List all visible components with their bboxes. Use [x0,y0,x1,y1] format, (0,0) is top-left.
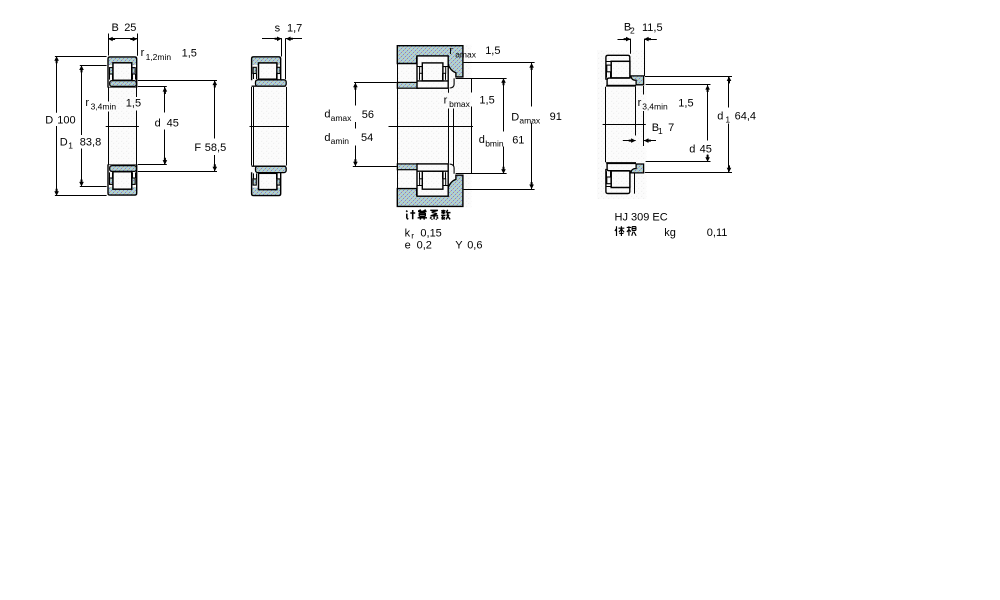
cage pocket [253,74,255,80]
flange line left [417,66,422,68]
cage bar right bottom [277,179,280,185]
svg-text:1,5: 1,5 [485,45,500,57]
ext line Da bottom [464,189,535,191]
text 计算系数 (calculation factors) [406,210,415,219]
dim line db seg2 [503,147,505,174]
bore face top [252,85,286,87]
dim line B [108,38,137,40]
shaft section cut face [471,78,473,92]
svg-text:k: k [405,227,411,239]
svg-text:0,2: 0,2 [417,239,432,251]
shaft shoulder OD top [456,78,472,80]
svg-text:d: d [324,132,330,144]
housing bottom [397,175,463,206]
inner ring top [417,80,448,82]
outer ring outline bottom [606,169,630,194]
dim line d1 seg2 [728,124,730,173]
svg-text:83,8: 83,8 [80,137,101,149]
bore line left [108,88,110,102]
flange line right [443,185,448,187]
svg-text:d: d [155,117,161,129]
ext line B1 right seg2 [643,111,645,146]
svg-text:D: D [60,137,68,149]
shaft shoulder strip bottom [397,164,418,170]
bore line right [286,87,288,166]
svg-text:d: d [717,111,723,123]
housing top [397,46,463,77]
dim line B2 right [644,39,657,41]
centerline drawing 2 [250,126,290,128]
ext line B1 right seg1 [643,86,645,95]
svg-text:r: r [141,47,145,59]
bearing section outline [417,164,448,196]
svg-text:r: r [85,97,89,109]
svg-text:kg: kg [664,227,676,239]
svg-text:54: 54 [361,132,373,144]
flange line right [443,66,448,68]
svg-text:1,2min: 1,2min [146,52,172,62]
svg-text:91: 91 [550,111,562,123]
ext line B left [108,34,110,56]
svg-text:1,5: 1,5 [678,97,693,109]
cage bar left [110,68,113,74]
outer ring [252,57,281,65]
ext line s right [285,38,287,79]
dim line F lower [214,155,216,171]
cage pocket bottom [606,171,608,177]
bore face [606,85,636,87]
svg-text:3,4min: 3,4min [642,101,668,111]
roller [611,61,630,78]
bottom section right face line [634,173,636,193]
cage right [443,179,446,186]
ext line F bottom [138,171,217,173]
section outline [252,57,281,81]
cage left [420,67,423,74]
dim line da seg3 [355,146,357,167]
HJ angle ring section bottom [631,164,644,173]
ext line d1 top [645,76,732,78]
roller [113,172,132,190]
ext line d top [646,84,711,86]
svg-text:1: 1 [658,126,663,136]
bore face [108,87,137,89]
svg-text:bmin: bmin [485,138,504,148]
shaft shoulder face [453,109,455,167]
svg-text:100: 100 [57,114,75,126]
bore line left drawing 4 [605,87,607,162]
svg-text:1,5: 1,5 [182,47,197,59]
bore line right / B1 ext [635,87,637,136]
outer ring bottom [252,188,281,196]
cage pocket bottom [253,173,255,179]
bore line left outer [251,87,253,166]
centerline drawing 1 [106,126,139,128]
outer ring outline [606,55,630,80]
dim line Da seg2 [531,123,533,189]
svg-text:0,15: 0,15 [420,227,441,239]
ext line d bottom [646,161,711,163]
dim line d upper [164,87,166,113]
roller [259,63,277,79]
ext line d bottom [138,164,167,166]
ext line da top [354,82,397,84]
bore [109,88,137,165]
svg-text:amax: amax [519,116,541,126]
ext line F top [138,80,217,82]
svg-text:7: 7 [668,122,674,134]
dim line d seg2 [707,155,709,162]
dim line D lower [56,126,58,196]
svg-text:e: e [405,239,411,251]
cage pocket [109,74,111,80]
svg-text:F: F [194,142,201,154]
svg-text:amin: amin [331,136,350,146]
shaft shoulder strip top [397,82,418,88]
svg-text:1,7: 1,7 [287,23,302,35]
ext line D1 top [80,65,107,67]
shaft shoulder face ext [448,89,450,93]
cage bar left bottom [253,179,256,185]
inner ring [607,78,636,85]
svg-text:HJ 309 EC: HJ 309 EC [615,211,668,223]
bore line right [136,88,138,97]
cage [607,65,611,72]
svg-text:2: 2 [630,25,635,35]
inner ring [110,81,137,87]
svg-text:11,5: 11,5 [642,22,663,34]
hatch area drawing 4 [597,50,646,199]
svg-text:Y: Y [455,239,463,251]
bore face bottom [252,165,286,167]
outer ring [108,57,137,65]
svg-text:0,11: 0,11 [707,227,728,239]
cage bar right [132,68,135,74]
ext line db bottom [456,173,507,175]
dim line d lower [164,130,166,165]
roller [113,63,132,81]
bore face bottom [606,162,636,164]
cage pocket [109,172,111,178]
roller bottom [259,173,277,189]
cage bar left [110,178,113,184]
dim line d1 seg1 [728,76,730,107]
inner ring [256,80,287,86]
roller [422,63,443,81]
svg-text:D: D [511,111,519,123]
svg-text:58,5: 58,5 [205,142,226,154]
dim line B1 left [623,140,636,142]
ext line B2 left [630,39,632,54]
svg-text:1: 1 [725,115,730,125]
svg-text:56: 56 [362,109,374,121]
svg-text:25: 25 [124,22,136,34]
section outline [108,164,137,195]
bore area [254,87,286,166]
dim line s left [262,38,282,40]
svg-text:61: 61 [512,134,524,146]
outer ring raceway left bottom [606,186,611,188]
outer ring raceway left [606,61,611,63]
ext line s left [281,38,283,56]
shaft shoulder OD bottom [456,173,472,175]
section outline [108,57,137,88]
dim line D1 lower [81,149,83,187]
dim line D1 upper [81,65,83,135]
dim line da seg1 [355,83,357,106]
dim line B2 left [618,39,631,41]
ext line d1 bottom [645,172,732,174]
roller [422,171,443,189]
dim line db seg1 [503,78,505,131]
section outline bottom [252,172,281,195]
centerline drawing 3 [389,126,474,128]
bore face [108,163,137,165]
ext line D bottom [55,195,107,197]
svg-text:1,5: 1,5 [126,97,141,109]
dim line D upper [56,56,58,113]
cage bar right [277,67,280,73]
svg-text:1,5: 1,5 [479,95,494,107]
ext line da bottom [353,166,397,168]
flange line left [417,185,422,187]
cage right [443,67,446,74]
dim line F upper [214,81,216,139]
svg-text:amax: amax [331,113,353,123]
svg-text:r: r [411,230,414,240]
ext line B2 right [644,39,646,76]
ext line db top [456,78,507,80]
dim line s right [286,38,302,40]
shaft shoulder face + fillet rb top [450,78,455,88]
dim line Da seg1 [531,63,533,107]
svg-text:64,4: 64,4 [735,111,756,123]
shaft/housing hatch area [397,45,471,208]
svg-text:1: 1 [68,141,73,151]
ext line Da top [464,62,535,64]
cage pocket [606,72,608,78]
svg-text:r: r [444,94,448,106]
roller bottom [611,171,630,188]
svg-text:s: s [275,23,281,35]
ext line D1 bottom [80,186,107,188]
svg-text:45: 45 [167,117,179,129]
ext line B right [137,34,139,56]
dim line B1 right [644,140,656,142]
svg-text:amax: amax [455,49,477,59]
shaft cut face left [397,64,399,189]
cage bar left [253,67,256,73]
HJ 309 EC angle ring section [631,76,644,85]
bore line left inner [253,87,255,166]
svg-text:r: r [449,45,453,57]
bearing section outline [417,56,448,88]
cage left [420,179,423,186]
cage bottom [607,177,611,184]
cage bar right [132,178,135,184]
section body [107,164,137,195]
section top [251,56,282,87]
text 体积 kg 0,11 [615,226,624,236]
svg-text:45: 45 [700,144,712,156]
svg-text:3,4min: 3,4min [91,102,117,112]
svg-text:bmax: bmax [449,99,471,109]
svg-text:r: r [638,97,642,109]
svg-text:d: d [479,134,485,146]
svg-text:d: d [689,144,695,156]
dim line d seg1 [707,85,709,141]
outer ring [108,187,137,195]
centerline drawing 4 [603,124,646,126]
section bottom [251,166,282,197]
inner ring bottom [607,163,636,170]
svg-text:0,6: 0,6 [467,239,482,251]
ext line D top [55,56,107,58]
section body [107,56,137,87]
svg-text:d: d [324,109,330,121]
inner ring bottom [256,166,287,172]
shaft shoulder face + fillet rb bottom [450,164,455,174]
svg-text:B: B [112,22,119,34]
inner ring [110,166,137,172]
inner ring bottom edge [417,170,448,172]
dim line da seg2 [355,122,357,129]
ext line d top [138,86,167,88]
svg-text:D: D [45,114,53,126]
